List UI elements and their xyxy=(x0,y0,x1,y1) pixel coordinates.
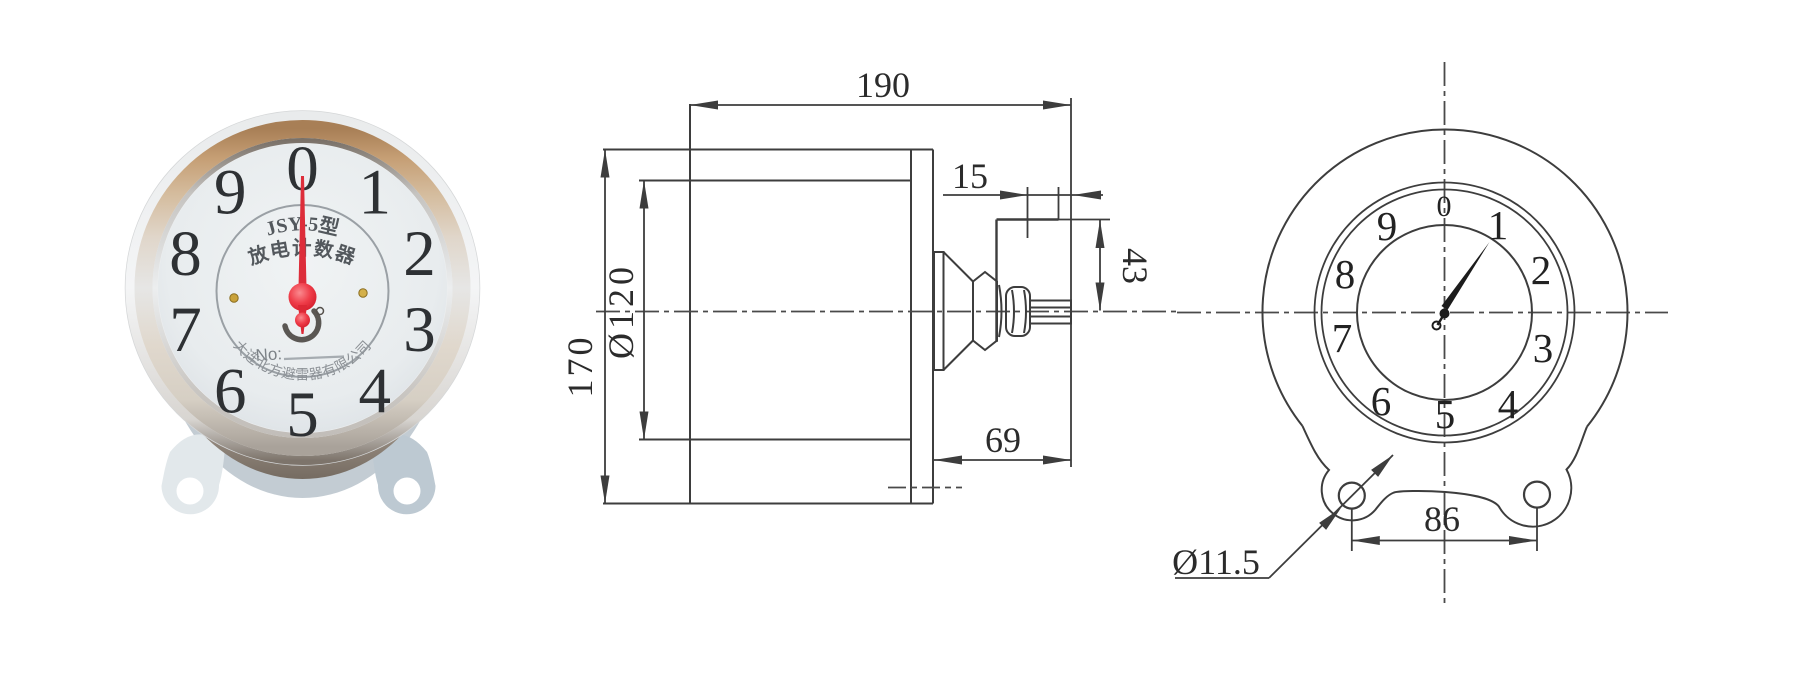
side connection strap xyxy=(997,220,1059,343)
photo company arc text xyxy=(230,338,375,384)
front bottom plate with ears xyxy=(1303,426,1588,527)
svg-text:15: 15 xyxy=(952,156,988,196)
photo gold dot right xyxy=(359,289,367,297)
svg-text:170: 170 xyxy=(560,335,600,398)
photo dial numerals xyxy=(169,133,436,451)
side body back face xyxy=(910,150,912,504)
photo mechanism dark mark xyxy=(285,308,324,340)
front left ear hole xyxy=(1339,483,1365,509)
photo back plate xyxy=(158,126,448,498)
photo dial face xyxy=(158,144,447,433)
svg-text:5: 5 xyxy=(1435,391,1456,437)
svg-text:4: 4 xyxy=(359,356,392,428)
svg-text:8: 8 xyxy=(169,218,202,290)
side center line xyxy=(596,311,1180,313)
side inner cylinder bottom xyxy=(639,439,911,441)
svg-text:3: 3 xyxy=(403,294,436,366)
side flange right edge xyxy=(932,150,934,504)
side flange hole center line xyxy=(888,487,962,489)
photo red pointer xyxy=(289,176,317,334)
photo gold dot left xyxy=(230,294,238,302)
photo bezel rings xyxy=(126,111,480,465)
svg-text:8: 8 xyxy=(1335,251,1356,297)
svg-text:2: 2 xyxy=(403,218,436,290)
side terminal stud xyxy=(1030,301,1071,324)
svg-text:4: 4 xyxy=(1498,381,1519,427)
side inner cylinder top xyxy=(639,180,911,182)
svg-text:7: 7 xyxy=(169,294,202,366)
svg-text:Ø11.5: Ø11.5 xyxy=(1172,542,1260,582)
dim 15 xyxy=(943,156,1103,238)
svg-text:190: 190 xyxy=(856,65,910,105)
dim 69 xyxy=(934,420,1071,465)
svg-text:43: 43 xyxy=(1115,248,1155,284)
svg-text:Ø120: Ø120 xyxy=(601,263,641,359)
svg-text:5: 5 xyxy=(286,379,319,451)
photo No: line xyxy=(255,344,344,365)
dim Ø120 xyxy=(601,181,649,440)
svg-text:7: 7 xyxy=(1332,315,1353,361)
svg-text:3: 3 xyxy=(1533,325,1554,371)
photo inner circle xyxy=(217,205,389,377)
side body bottom edge xyxy=(603,503,933,505)
svg-text:6: 6 xyxy=(214,356,247,428)
side body front face xyxy=(689,104,691,504)
svg-text:9: 9 xyxy=(214,157,247,229)
dim Ø11.5 leader xyxy=(1172,455,1393,582)
front horizontal center line xyxy=(1177,312,1668,314)
photo right mounting ear xyxy=(372,434,436,514)
svg-text:1: 1 xyxy=(1488,202,1509,248)
photo left mounting ear xyxy=(162,434,226,514)
front dial numerals xyxy=(1332,190,1554,437)
svg-text:9: 9 xyxy=(1377,203,1398,249)
front outer circle xyxy=(1262,129,1627,426)
svg-text:0: 0 xyxy=(1437,190,1452,223)
photo bezel bottom chin xyxy=(153,125,453,479)
svg-text:6: 6 xyxy=(1371,378,1392,424)
front inner dial circle xyxy=(1357,225,1532,400)
dim 190 xyxy=(690,65,1071,467)
svg-text:69: 69 xyxy=(985,420,1021,460)
front vertical center line xyxy=(1444,62,1446,603)
svg-text:2: 2 xyxy=(1531,247,1552,293)
front pointer xyxy=(1433,242,1490,330)
side terminal insulator xyxy=(934,252,1030,370)
photo label JSY-5 xyxy=(263,213,341,241)
front right ear hole xyxy=(1524,482,1550,508)
side body top edge xyxy=(603,149,933,151)
svg-text:86: 86 xyxy=(1424,499,1460,539)
dim 170 xyxy=(560,150,610,504)
photo label fangdian jishuqi xyxy=(245,237,360,270)
dim 86 xyxy=(1352,499,1537,551)
dim 43 xyxy=(1059,220,1156,311)
front bezel double ring xyxy=(1315,183,1575,443)
svg-text:1: 1 xyxy=(359,157,392,229)
